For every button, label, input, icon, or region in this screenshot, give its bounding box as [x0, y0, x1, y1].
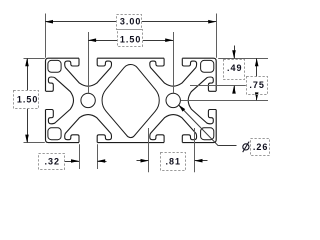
dimension 1.50 left line [27, 58, 29, 90]
T-slot cavity bottom-left [65, 115, 112, 143]
svg-text:1.50: 1.50 [120, 34, 142, 44]
dimension .75 line [256, 58, 258, 77]
corner cavity bottom-left [48, 128, 61, 140]
svg-text:3.00: 3.00 [120, 16, 142, 26]
dimension .75 text box [247, 77, 268, 95]
dimension 3.00 extension lines [45, 14, 47, 58]
dimension .81 text box [161, 153, 186, 171]
dimension .49 text box [224, 60, 245, 80]
dimension .32 text box [39, 154, 65, 170]
dimension .26 text box [251, 139, 270, 156]
dimension 1.50 left extension lines [24, 58, 45, 60]
corner cavity top-right [201, 60, 214, 72]
leader line diameter .26 [178, 105, 218, 146]
T-slot cavity top-right [150, 58, 197, 86]
center diamond cavity [102, 65, 159, 138]
center bore hole left [81, 93, 95, 107]
svg-text:1.50: 1.50 [17, 94, 39, 104]
svg-text:.49: .49 [227, 63, 243, 73]
dimension .32 extension lines [79, 144, 81, 169]
dimension .32 arrows [64, 161, 79, 163]
svg-text:.81: .81 [166, 156, 182, 166]
svg-text:.75: .75 [249, 80, 265, 90]
dimension .49 extension lines [218, 58, 268, 60]
T-slot cavity right end [188, 77, 216, 124]
dimension 1.50 top extension lines [88, 32, 90, 93]
dimension .81 arrows [137, 160, 149, 162]
corner cavity bottom-right [201, 128, 214, 140]
dimension .49 arrows [234, 46, 236, 59]
T-slot cavity bottom-right [150, 115, 197, 143]
svg-text:.26: .26 [253, 142, 269, 152]
T-slot cavity top-left [65, 58, 112, 86]
diameter symbol [243, 144, 249, 150]
dimension 3.00 line [45, 21, 116, 23]
dimension 1.50 left text box [14, 91, 39, 109]
corner cavity top-left [48, 60, 61, 72]
T-slot cavity left end [46, 77, 74, 124]
dimension 1.50 top text box [118, 30, 143, 47]
dimension 3.00 text box [117, 15, 142, 30]
dimension 1.50 top line [88, 40, 117, 42]
extrusion outer contour [46, 58, 217, 142]
dimension .81 extension lines [148, 128, 150, 172]
dimension .75 extension line [181, 100, 268, 102]
svg-text:.32: .32 [45, 156, 61, 166]
center bore hole right [166, 93, 180, 107]
